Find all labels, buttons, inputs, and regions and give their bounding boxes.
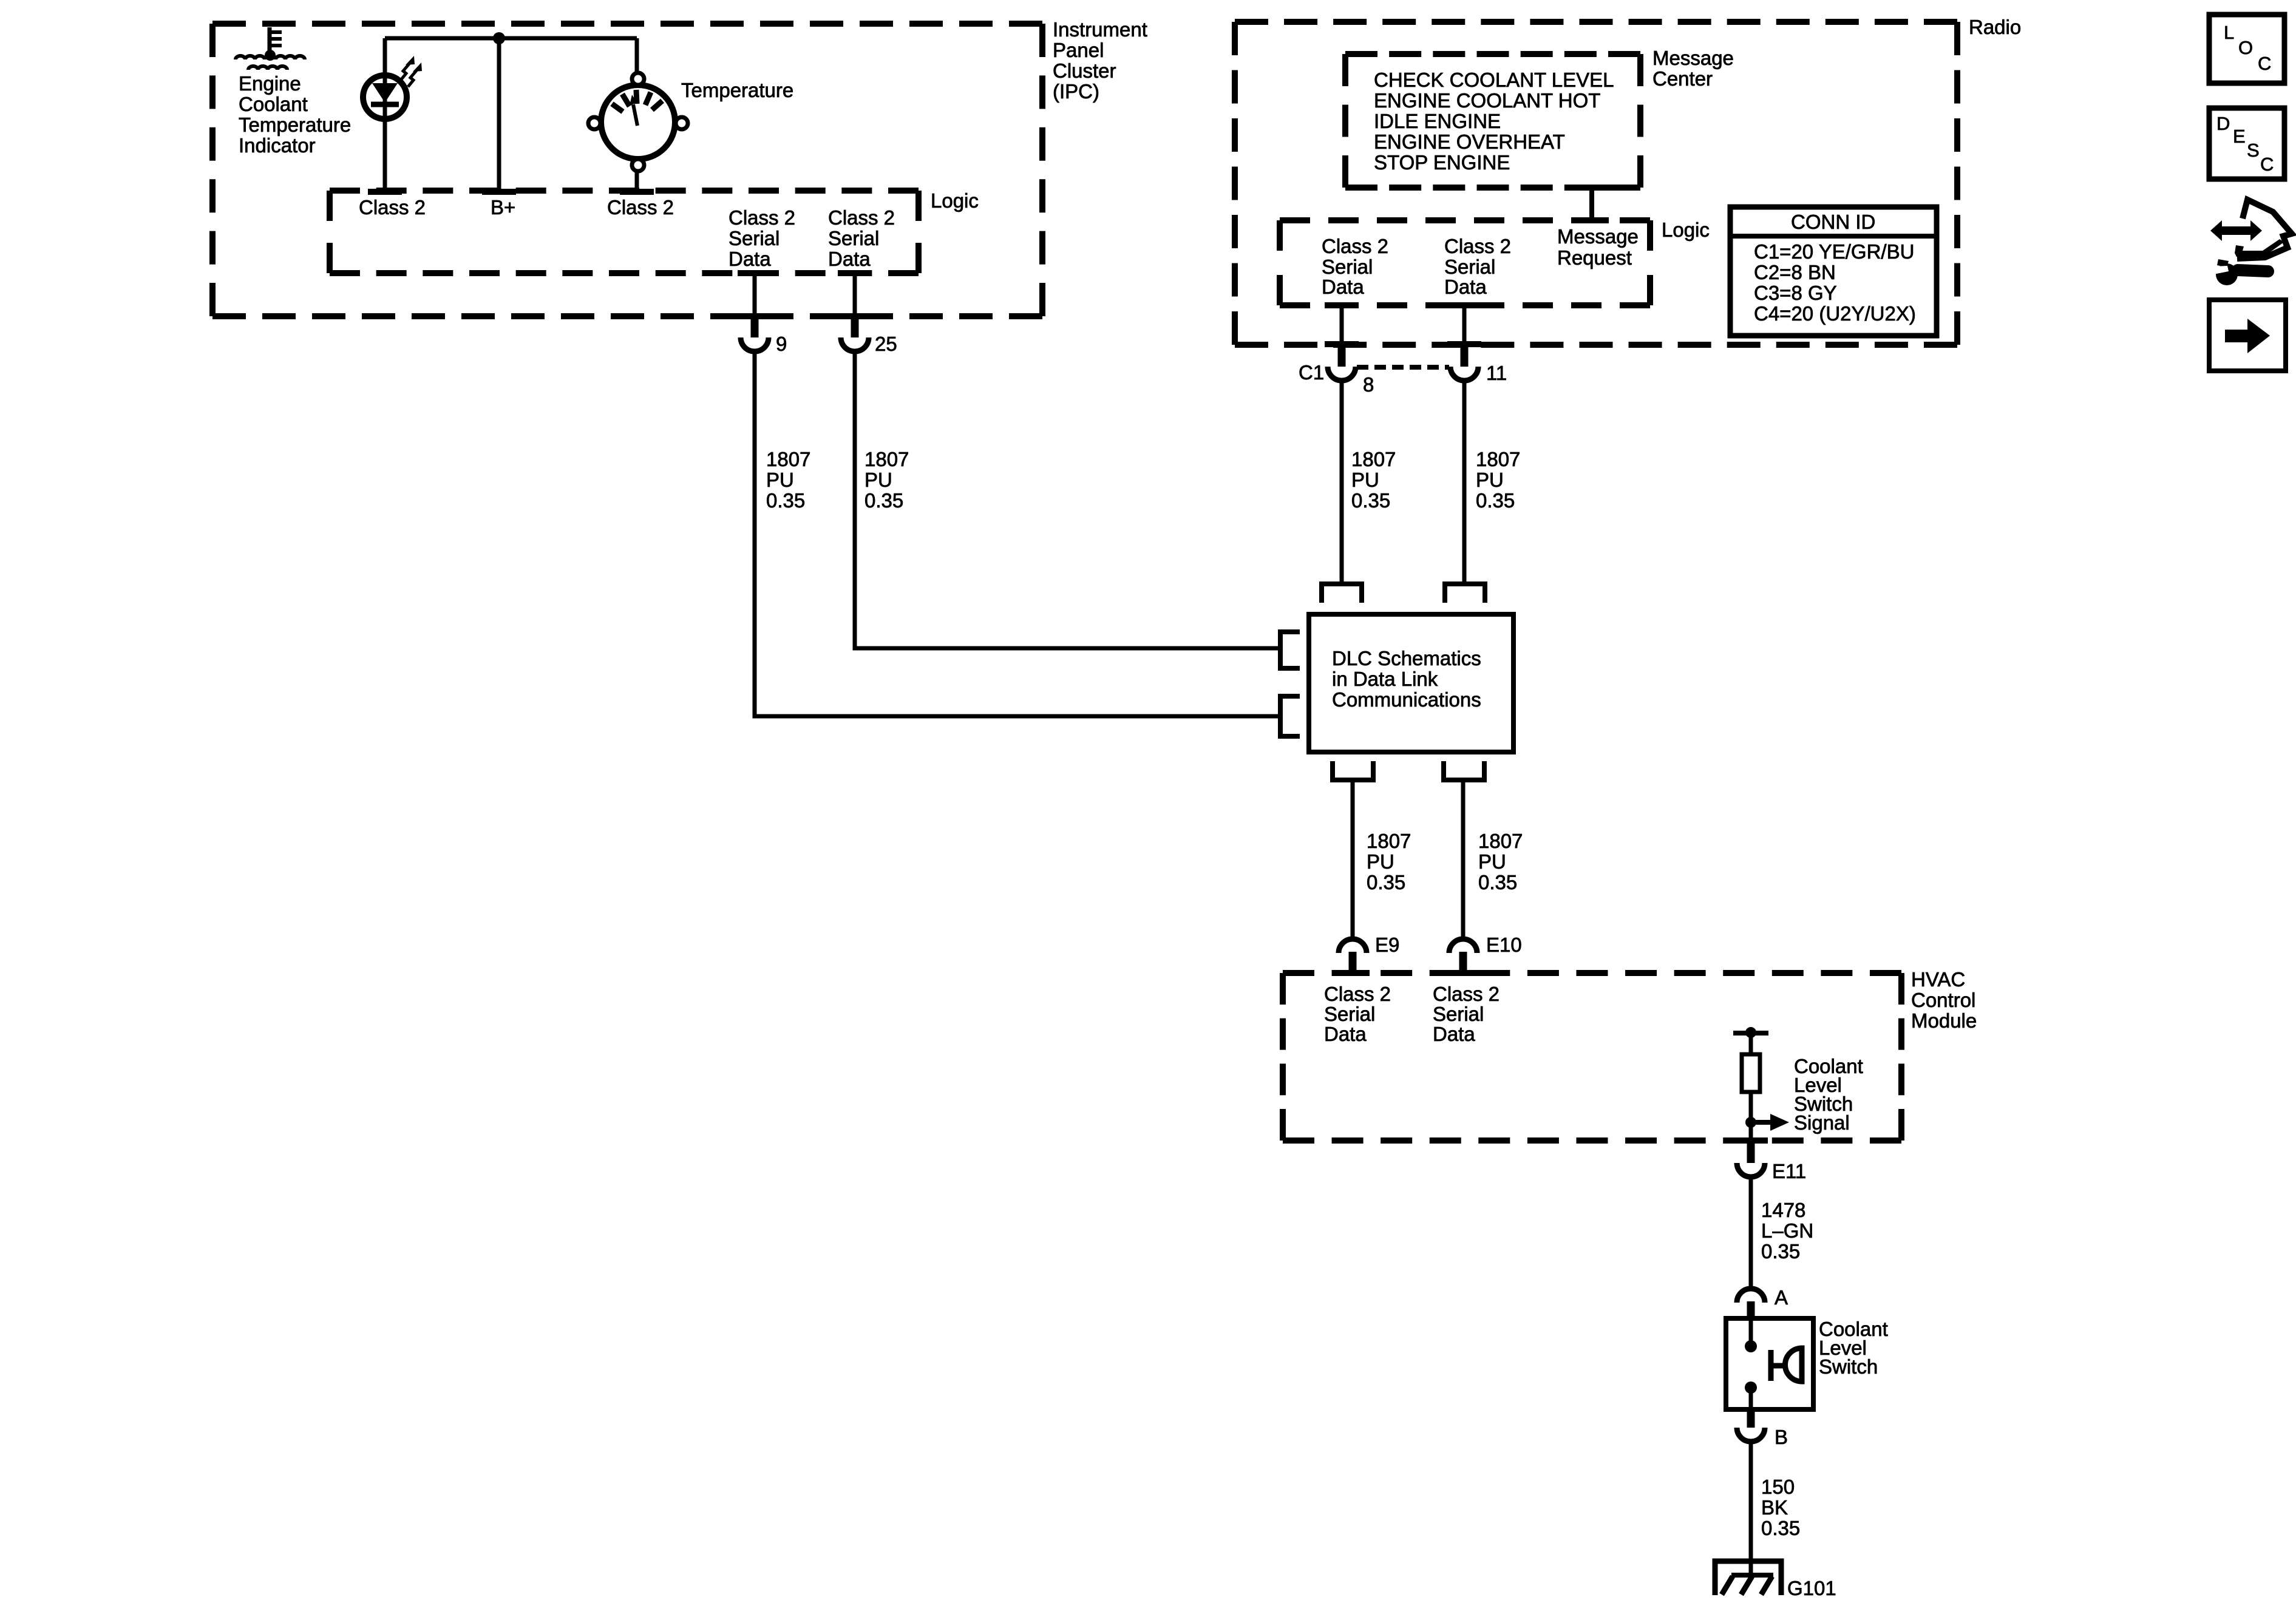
logic box (IPC) (330, 189, 979, 273)
svg-text:PU: PU (1478, 850, 1506, 873)
svg-text:B: B (1775, 1426, 1788, 1448)
node: terminal junction dot (1745, 1027, 1756, 1038)
net label: Class 2 Serial Data (pin 11) (1444, 235, 1511, 298)
net label: Class 2 Serial Data (pin 8) (1322, 235, 1388, 298)
svg-text:CONN ID: CONN ID (1791, 211, 1875, 233)
svg-text:Logic: Logic (1662, 219, 1710, 241)
DLC Schematics box (1309, 614, 1513, 752)
svg-text:(IPC): (IPC) (1053, 80, 1099, 103)
svg-text:0.35: 0.35 (864, 489, 903, 512)
connector pin 25 (841, 314, 897, 355)
svg-text:Signal: Signal (1794, 1111, 1850, 1134)
svg-text:O: O (2238, 37, 2253, 58)
wire: serial data from Logic to pin 25 (853, 273, 857, 316)
svg-text:Module: Module (1911, 1009, 1977, 1032)
internal terminal bar above resistor (1733, 1031, 1768, 1036)
signal arrow: Coolant Level Switch Signal (1751, 1055, 1863, 1134)
wire: message center to logic (1589, 188, 1594, 220)
wire: LED branch (383, 38, 387, 192)
svg-text:STOP ENGINE: STOP ENGINE (1374, 151, 1510, 174)
svg-text:Serial: Serial (828, 227, 879, 249)
svg-text:G101: G101 (1787, 1577, 1836, 1599)
table: CONN ID (1730, 207, 1937, 336)
svg-text:Data: Data (828, 248, 871, 270)
svg-text:0.35: 0.35 (1478, 871, 1517, 893)
wire: B+ feed down to Logic (497, 38, 501, 192)
svg-text:Class 2: Class 2 (359, 196, 426, 219)
svg-text:C3=8 GY: C3=8 GY (1754, 282, 1837, 304)
indicator lamp LED symbol (363, 56, 422, 119)
ground G101 (1715, 1561, 1836, 1599)
wire 1807 PU 0.35 (DLC to E10) (1461, 780, 1466, 939)
svg-text:ENGINE OVERHEAT: ENGINE OVERHEAT (1374, 131, 1565, 153)
wire 1807 PU 0.35 (pin 8 to DLC) (1340, 381, 1344, 584)
svg-text:25: 25 (875, 333, 897, 355)
wire crossing dashes on dashed borders (368, 185, 1768, 1144)
icon: continuation arrow box (2209, 300, 2286, 371)
gauge: Temperature (588, 38, 793, 192)
svg-text:L: L (2224, 22, 2234, 43)
svg-text:C4=20 (U2Y/U2X): C4=20 (U2Y/U2X) (1754, 302, 1916, 325)
svg-text:IDLE ENGINE: IDLE ENGINE (1374, 110, 1501, 132)
svg-text:B+: B+ (491, 196, 515, 219)
svg-text:Serial: Serial (729, 227, 779, 249)
svg-text:Indicator: Indicator (239, 134, 316, 157)
wire: pin 8 from Logic to connector (1340, 305, 1344, 344)
svg-text:Data: Data (1444, 276, 1487, 298)
svg-text:150: 150 (1761, 1476, 1795, 1498)
svg-text:1807: 1807 (766, 448, 810, 470)
Coolant Level Switch box (1726, 1318, 1888, 1409)
svg-text:Class 2: Class 2 (607, 196, 674, 219)
svg-text:E10: E10 (1486, 934, 1522, 956)
connector pin E10 (1449, 934, 1522, 973)
svg-text:Data: Data (1322, 276, 1364, 298)
svg-text:Temperature: Temperature (681, 79, 793, 101)
net label: Class 2 Serial Data (pin 25) (828, 206, 895, 270)
net label: Class 2 Serial Data (E9) (1324, 983, 1391, 1045)
svg-text:0.35: 0.35 (1761, 1240, 1800, 1263)
svg-text:Temperature: Temperature (239, 114, 351, 136)
svg-text:Class 2: Class 2 (1324, 983, 1391, 1005)
svg-text:A: A (1775, 1286, 1788, 1309)
svg-text:1807: 1807 (1478, 830, 1523, 852)
wire 1478 L-GN 0.35 (E11 to A) (1749, 1177, 1753, 1289)
svg-text:C: C (2258, 53, 2271, 74)
svg-text:S: S (2247, 140, 2260, 161)
svg-text:Instrument: Instrument (1053, 18, 1147, 41)
wire 1807 PU 0.35 (pin 9 to DLC) (755, 351, 1282, 716)
net label: Class 2 Serial Data (pin 9) (729, 206, 795, 270)
svg-text:D: D (2216, 113, 2230, 134)
switch contact wire (bottom) (1749, 1392, 1753, 1409)
svg-text:1807: 1807 (1476, 448, 1520, 470)
svg-text:DLC Schematics: DLC Schematics (1332, 647, 1481, 670)
connector pin A (1737, 1286, 1788, 1318)
svg-text:Coolant: Coolant (239, 93, 308, 115)
net label: Class 2 Serial Data (E10) (1433, 983, 1500, 1045)
icon: repair instructions (double arrow, panel outline, wrench) (2210, 200, 2292, 285)
svg-text:in Data Link: in Data Link (1332, 668, 1438, 690)
svg-text:BK: BK (1761, 1496, 1788, 1519)
svg-text:Logic: Logic (931, 189, 979, 212)
svg-text:Class 2: Class 2 (1322, 235, 1388, 257)
svg-text:1807: 1807 (1351, 448, 1396, 470)
svg-text:Engine: Engine (239, 72, 301, 95)
module box: HVAC Control Module (1283, 968, 1977, 1141)
node: coolant level switch signal junction (1745, 1117, 1756, 1128)
svg-text:11: 11 (1486, 362, 1507, 384)
node: top contact dot (1745, 1340, 1757, 1352)
svg-text:Control: Control (1911, 989, 1975, 1011)
DLC bottom terminal bracket 2 (1444, 761, 1484, 780)
svg-text:HVAC: HVAC (1911, 968, 1965, 991)
svg-text:PU: PU (766, 469, 794, 491)
connector pin E11 (1737, 1140, 1806, 1182)
wire 1807 PU 0.35 (DLC to E9) (1351, 780, 1355, 939)
net label: Message Request (1557, 225, 1639, 269)
icon: DESC reference box (2209, 108, 2284, 179)
svg-text:Class 2: Class 2 (828, 206, 895, 229)
logic box (Radio) (1280, 219, 1710, 305)
svg-text:Class 2: Class 2 (1433, 983, 1500, 1005)
connector pin E9 (1339, 934, 1399, 973)
svg-text:C2=8 BN: C2=8 BN (1754, 261, 1836, 283)
svg-text:E11: E11 (1772, 1160, 1806, 1182)
svg-text:Message: Message (1557, 225, 1639, 248)
svg-text:0.35: 0.35 (766, 489, 805, 512)
svg-text:0.35: 0.35 (1351, 489, 1390, 512)
DLC left terminal bracket 1 (1280, 632, 1300, 668)
svg-text:0.35: 0.35 (1476, 489, 1515, 512)
svg-text:Request: Request (1557, 246, 1632, 269)
connector pin B (1737, 1409, 1788, 1448)
DLC left terminal bracket 2 (1280, 696, 1300, 736)
svg-text:9: 9 (776, 333, 787, 355)
DLC bottom terminal bracket 1 (1333, 761, 1373, 780)
node: bottom contact dot (1745, 1381, 1757, 1394)
dashed link between connector pins 8 and 11 (1357, 365, 1449, 370)
svg-text:Serial: Serial (1324, 1003, 1375, 1025)
svg-text:Switch: Switch (1819, 1355, 1878, 1378)
svg-text:PU: PU (1367, 850, 1394, 873)
svg-text:E: E (2233, 126, 2246, 147)
svg-text:PU: PU (1351, 469, 1379, 491)
node: B+ junction (493, 32, 505, 44)
wire: bar to resistor (1749, 1033, 1753, 1054)
svg-text:Radio: Radio (1969, 16, 2021, 38)
svg-text:C1: C1 (1299, 361, 1324, 384)
svg-text:ENGINE COOLANT HOT: ENGINE COOLANT HOT (1374, 89, 1600, 112)
DLC top terminal bracket 1 (1322, 584, 1362, 603)
svg-text:Serial: Serial (1444, 256, 1495, 278)
message center box (1345, 47, 1734, 188)
svg-text:PU: PU (864, 469, 892, 491)
engine coolant temperature indicator icon (thermometer in coolant) (236, 27, 351, 157)
svg-text:8: 8 (1363, 373, 1374, 396)
svg-text:1807: 1807 (1367, 830, 1411, 852)
svg-text:Data: Data (729, 248, 771, 270)
svg-text:Center: Center (1652, 67, 1713, 90)
svg-text:Class 2: Class 2 (1444, 235, 1511, 257)
svg-text:Serial: Serial (1433, 1003, 1484, 1025)
wire: resistor to signal node (1749, 1092, 1753, 1141)
svg-text:Serial: Serial (1322, 256, 1373, 278)
svg-text:L–GN: L–GN (1761, 1219, 1813, 1242)
svg-text:E9: E9 (1375, 934, 1399, 956)
resistor (pull-up in HVAC module) (1742, 1054, 1760, 1092)
svg-text:Communications: Communications (1332, 688, 1481, 711)
svg-text:0.35: 0.35 (1761, 1517, 1800, 1539)
svg-text:0.35: 0.35 (1367, 871, 1405, 893)
float switch symbol (1771, 1348, 1802, 1381)
svg-text:Class 2: Class 2 (729, 206, 795, 229)
svg-text:Panel: Panel (1053, 39, 1104, 61)
wire 150 BK 0.35 (B to ground) (1749, 1442, 1753, 1576)
svg-text:PU: PU (1476, 469, 1504, 491)
svg-text:Data: Data (1324, 1023, 1367, 1045)
svg-text:Cluster: Cluster (1053, 59, 1116, 82)
svg-text:C1=20 YE/GR/BU: C1=20 YE/GR/BU (1754, 240, 1914, 263)
wire: serial data from Logic to pin 9 (753, 273, 757, 316)
module box: Radio (1235, 16, 2021, 345)
svg-text:Data: Data (1433, 1023, 1475, 1045)
wire: IPC top bus from indicator to gauge (385, 36, 637, 41)
connector pin 9 (741, 314, 787, 355)
wire: pin 11 from Logic to connector (1462, 305, 1467, 344)
svg-text:C: C (2260, 154, 2274, 175)
icon: LOC reference box (2209, 15, 2284, 83)
DLC top terminal bracket 2 (1445, 584, 1485, 603)
svg-text:Message: Message (1652, 47, 1734, 69)
module box: Instrument Panel Cluster (IPC) (212, 18, 1147, 316)
svg-text:1807: 1807 (864, 448, 909, 470)
connector C1 pin 11 (1450, 343, 1507, 384)
svg-text:1478: 1478 (1761, 1199, 1805, 1221)
wire 1807 PU 0.35 (pin 25 to DLC) (855, 351, 1282, 648)
svg-text:CHECK COOLANT LEVEL: CHECK COOLANT LEVEL (1374, 69, 1614, 91)
switch contact wire (top) (1749, 1318, 1753, 1341)
wire 1807 PU 0.35 (pin 11 to DLC) (1462, 381, 1467, 584)
connector C1 pin 8 (1299, 343, 1374, 396)
